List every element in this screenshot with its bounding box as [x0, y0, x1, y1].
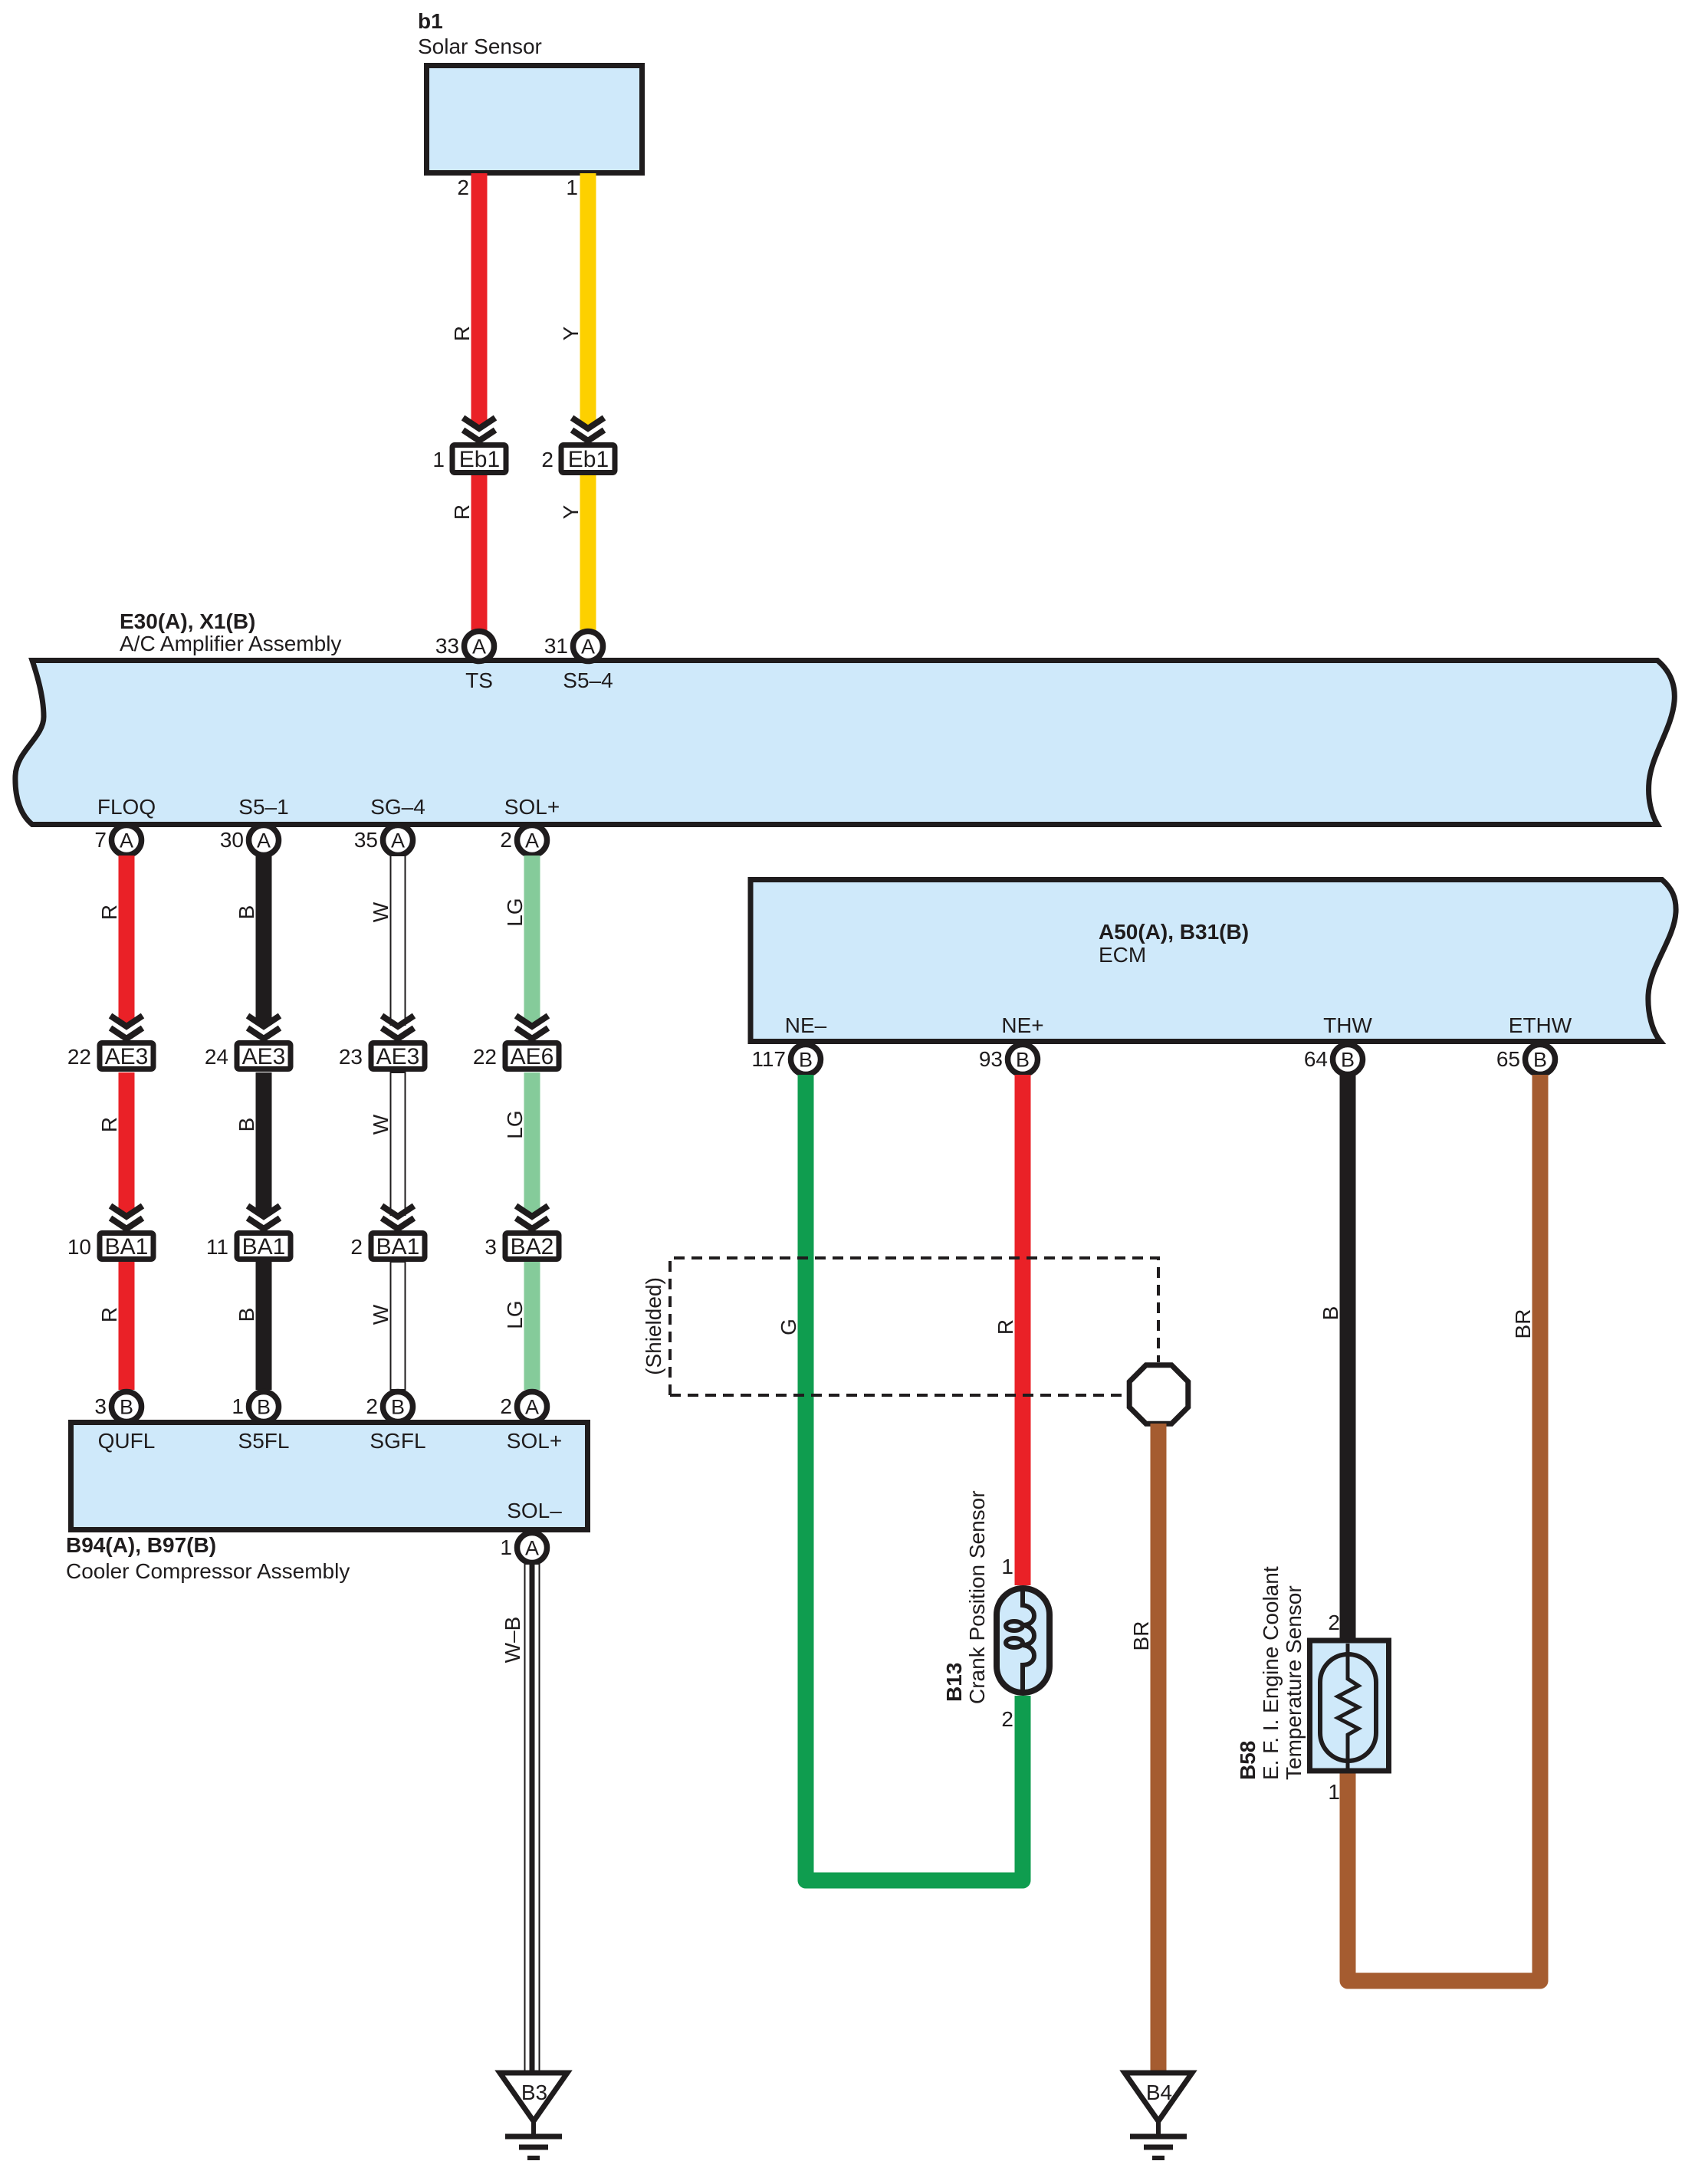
svg-text:(Shielded): (Shielded)	[642, 1277, 665, 1375]
svg-text:SGFL: SGFL	[370, 1429, 425, 1453]
ground B3	[500, 2073, 567, 2158]
svg-text:R: R	[450, 326, 474, 341]
svg-text:E. F. I. Engine Coolant: E. F. I. Engine Coolant	[1259, 1566, 1283, 1780]
connector Eb1 (left)	[452, 445, 506, 473]
component ECM title	[1099, 920, 1249, 967]
wire BR from ETHW looping to coolant temp sensor pin 1	[1348, 1075, 1540, 1981]
connector BA2 3	[505, 1233, 559, 1260]
wire R from Eb1 to A/C amplifier pin 33	[471, 475, 488, 635]
arrow into connector AE6 (col 4)	[516, 1016, 548, 1039]
svg-text:B: B	[1533, 1049, 1547, 1072]
sensor B58 coolant temperature sensor body	[1310, 1640, 1389, 1771]
svg-text:30: 30	[220, 828, 244, 852]
svg-text:2: 2	[1328, 1611, 1340, 1634]
pin 117 B circle	[791, 1045, 821, 1075]
svg-text:33: 33	[435, 634, 459, 658]
wire B segment C	[256, 1262, 272, 1390]
sensor B13 Crank Position Sensor label	[942, 1490, 989, 1704]
svg-text:Y: Y	[559, 504, 583, 519]
svg-text:B: B	[1341, 1049, 1355, 1072]
arrow into connector AE3 (col 2)	[248, 1016, 280, 1039]
svg-text:Eb1: Eb1	[568, 447, 609, 472]
wire Y from Eb1 to A/C amplifier pin 31	[580, 475, 596, 635]
svg-text:B: B	[120, 1396, 133, 1419]
svg-text:AE3: AE3	[242, 1044, 286, 1069]
pin 31 A circle	[573, 632, 603, 662]
svg-text:Solar Sensor: Solar Sensor	[418, 34, 542, 58]
svg-text:R: R	[97, 905, 121, 920]
svg-text:BR: BR	[1129, 1621, 1153, 1651]
svg-text:LG: LG	[503, 898, 527, 926]
svg-text:2: 2	[366, 1394, 378, 1418]
pin 30 A circle	[249, 826, 279, 856]
svg-text:SG–4: SG–4	[370, 795, 425, 819]
svg-text:Temperature Sensor: Temperature Sensor	[1282, 1585, 1306, 1780]
wire R from Solar Sensor pin 2 to connector Eb1	[471, 173, 488, 426]
svg-text:2: 2	[1001, 1707, 1013, 1731]
arrow into connector Eb1 (right)	[572, 418, 604, 441]
svg-text:A/C Amplifier Assembly: A/C Amplifier Assembly	[120, 632, 341, 655]
svg-text:AE3: AE3	[105, 1044, 149, 1069]
arrow into connector BA1 (col 3)	[382, 1206, 414, 1229]
svg-text:A: A	[581, 635, 595, 658]
svg-text:LG: LG	[503, 1300, 527, 1328]
svg-text:Y: Y	[559, 326, 583, 340]
svg-text:QUFL: QUFL	[98, 1429, 156, 1453]
arrow into connector Eb1 (left)	[463, 418, 495, 441]
pin 65 B circle	[1526, 1045, 1555, 1075]
wire W-B from SOL- to ground B3	[525, 1564, 540, 2073]
arrow into connector BA2 (col 4)	[516, 1206, 548, 1229]
svg-text:1: 1	[1001, 1555, 1013, 1578]
svg-text:24: 24	[205, 1045, 228, 1069]
svg-text:2: 2	[500, 1394, 512, 1418]
connector AE3 24	[237, 1043, 291, 1070]
svg-text:E30(A), X1(B): E30(A), X1(B)	[120, 609, 255, 633]
svg-text:LG: LG	[503, 1110, 527, 1138]
svg-text:2: 2	[541, 448, 554, 471]
connector Eb1 (right)	[561, 445, 615, 473]
wire B from THW to coolant temp sensor pin 2	[1340, 1075, 1356, 1640]
ground B4	[1125, 2073, 1192, 2158]
svg-text:b1: b1	[418, 9, 443, 33]
wire LG SOL+ segment A	[524, 856, 540, 1025]
svg-text:SOL+: SOL+	[504, 795, 560, 819]
svg-text:W: W	[369, 902, 393, 922]
svg-text:93: 93	[979, 1047, 1003, 1071]
svg-text:A: A	[120, 829, 133, 852]
svg-text:23: 23	[339, 1045, 363, 1069]
svg-text:S5FL: S5FL	[238, 1429, 290, 1453]
svg-text:65: 65	[1496, 1047, 1520, 1071]
svg-text:FLOQ: FLOQ	[97, 795, 156, 819]
svg-text:ECM: ECM	[1099, 943, 1146, 967]
arrow into connector AE3 (col 3)	[382, 1016, 414, 1039]
thermistor symbol inside coolant sensor	[1320, 1644, 1376, 1771]
arrow into connector AE3 (col 1)	[110, 1016, 143, 1039]
pin 64 B circle	[1333, 1045, 1363, 1075]
svg-text:NE+: NE+	[1001, 1013, 1043, 1037]
component E30(A) X1(B) A/C Amplifier Assembly title	[120, 609, 341, 655]
svg-text:BA1: BA1	[242, 1234, 286, 1259]
svg-text:SOL–: SOL–	[507, 1499, 562, 1522]
shield ground octagon node	[1129, 1365, 1188, 1424]
svg-text:A: A	[525, 1537, 539, 1560]
svg-text:117: 117	[751, 1047, 786, 1071]
svg-text:B94(A), B97(B): B94(A), B97(B)	[66, 1533, 216, 1557]
svg-text:B: B	[235, 1308, 258, 1322]
svg-text:NE–: NE–	[785, 1013, 827, 1037]
pin 1 A circle (SOL-)	[517, 1533, 547, 1563]
svg-text:22: 22	[67, 1045, 91, 1069]
svg-text:22: 22	[473, 1045, 497, 1069]
svg-text:AE3: AE3	[376, 1044, 420, 1069]
svg-text:B: B	[799, 1049, 813, 1072]
component b1 Solar Sensor title	[418, 9, 542, 58]
svg-text:S5–1: S5–1	[238, 795, 288, 819]
wire BR from shield octagon to ground B4	[1151, 1424, 1167, 2072]
svg-text:Crank Position Sensor: Crank Position Sensor	[965, 1490, 989, 1704]
svg-text:31: 31	[544, 634, 568, 658]
svg-text:B58: B58	[1236, 1741, 1260, 1780]
connector BA1 11	[237, 1233, 291, 1260]
component A/C Amplifier Assembly box	[15, 661, 1674, 825]
svg-text:1: 1	[500, 1535, 512, 1559]
svg-text:Cooler Compressor Assembly: Cooler Compressor Assembly	[66, 1559, 350, 1583]
svg-text:R: R	[994, 1319, 1017, 1335]
component b1 Solar Sensor box	[427, 66, 642, 173]
svg-text:B13: B13	[942, 1663, 966, 1702]
wire LG segment B	[524, 1072, 540, 1215]
pin 35 A circle	[383, 826, 413, 856]
svg-text:B: B	[391, 1396, 405, 1419]
svg-text:Eb1: Eb1	[459, 447, 500, 472]
wire W SG-4 segment A	[391, 856, 406, 1025]
svg-text:3: 3	[485, 1235, 497, 1259]
svg-text:AE6: AE6	[511, 1044, 554, 1069]
svg-text:64: 64	[1304, 1047, 1328, 1071]
svg-text:A: A	[525, 1396, 539, 1419]
connector AE6 22	[505, 1043, 559, 1070]
pin 33 A circle	[465, 632, 494, 662]
svg-text:BR: BR	[1511, 1309, 1535, 1339]
wire W segment C	[391, 1262, 406, 1390]
svg-text:S5–4: S5–4	[563, 668, 613, 692]
svg-text:1: 1	[432, 448, 445, 471]
svg-text:W: W	[369, 1304, 393, 1325]
svg-text:SOL+: SOL+	[507, 1429, 562, 1453]
svg-text:7: 7	[94, 828, 107, 852]
svg-text:BA2: BA2	[511, 1234, 554, 1259]
shield dashed box (Shielded)	[670, 1258, 1158, 1395]
svg-text:B3: B3	[521, 2081, 547, 2104]
svg-text:BA1: BA1	[376, 1234, 420, 1259]
svg-text:35: 35	[354, 828, 378, 852]
wire R segment C	[119, 1262, 135, 1390]
wire G from NE- looping to crank sensor pin 2	[806, 1075, 1023, 1880]
svg-text:THW: THW	[1323, 1013, 1372, 1037]
svg-text:B: B	[235, 1118, 258, 1132]
sensor B13 crank position sensor body	[997, 1588, 1050, 1693]
svg-text:A: A	[525, 829, 539, 852]
svg-text:11: 11	[206, 1235, 228, 1259]
svg-text:W–B: W–B	[501, 1617, 524, 1663]
svg-text:BA1: BA1	[105, 1234, 149, 1259]
pin 93 B circle	[1008, 1045, 1038, 1075]
svg-text:B: B	[1016, 1049, 1030, 1072]
svg-text:B4: B4	[1146, 2081, 1172, 2104]
connector AE3 22	[100, 1043, 153, 1070]
svg-text:2: 2	[350, 1235, 363, 1259]
wire R FLOQ segment A	[119, 856, 135, 1025]
wire W segment B	[391, 1072, 406, 1215]
component Cooler Compressor Assembly title	[66, 1533, 350, 1583]
wire B S5-1 segment A	[256, 856, 272, 1025]
svg-text:W: W	[369, 1114, 393, 1135]
svg-text:A50(A), B31(B): A50(A), B31(B)	[1099, 920, 1249, 944]
svg-text:ETHW: ETHW	[1509, 1013, 1572, 1037]
svg-text:B: B	[235, 905, 258, 920]
connector AE3 23	[371, 1043, 425, 1070]
pin 1 B circle	[249, 1392, 279, 1422]
arrow into connector BA1 (col 1)	[110, 1206, 143, 1229]
wire Y from Solar Sensor pin 1 to connector Eb1	[580, 173, 596, 426]
pin 7 A circle	[112, 826, 142, 856]
wire R segment B	[119, 1072, 135, 1215]
svg-text:10: 10	[67, 1235, 91, 1259]
pin 2 B circle	[383, 1392, 413, 1422]
coil symbol inside crank sensor	[1006, 1588, 1034, 1693]
sensor B58 EFI Engine Coolant Temperature Sensor label	[1236, 1566, 1306, 1780]
svg-text:3: 3	[94, 1394, 107, 1418]
component A50(A) B31(B) ECM box	[751, 880, 1676, 1042]
wire B segment B	[256, 1072, 272, 1215]
component B94(A) B97(B) Cooler Compressor Assembly box	[71, 1423, 588, 1530]
wire R from NE+ to crank sensor pin 1	[1015, 1075, 1031, 1585]
pin 2 A circle	[517, 1392, 547, 1422]
pin 2 A circle	[517, 826, 547, 856]
svg-text:R: R	[97, 1117, 121, 1132]
svg-text:R: R	[450, 504, 474, 520]
svg-text:A: A	[472, 635, 486, 658]
arrow into connector BA1 (col 2)	[248, 1206, 280, 1229]
svg-text:B: B	[257, 1396, 271, 1419]
svg-text:1: 1	[232, 1394, 244, 1418]
connector BA1 10	[100, 1233, 153, 1260]
svg-text:A: A	[391, 829, 405, 852]
pin 3 B circle	[112, 1392, 142, 1422]
svg-text:1: 1	[566, 176, 578, 199]
svg-text:G: G	[777, 1319, 800, 1335]
svg-text:TS: TS	[465, 668, 493, 692]
svg-text:A: A	[257, 829, 271, 852]
svg-text:1: 1	[1328, 1780, 1340, 1804]
svg-text:R: R	[97, 1307, 121, 1322]
svg-text:B: B	[1319, 1306, 1342, 1321]
connector BA1 2	[371, 1233, 425, 1260]
svg-text:2: 2	[457, 176, 469, 199]
svg-text:2: 2	[500, 828, 512, 852]
wire LG segment C	[524, 1262, 540, 1390]
